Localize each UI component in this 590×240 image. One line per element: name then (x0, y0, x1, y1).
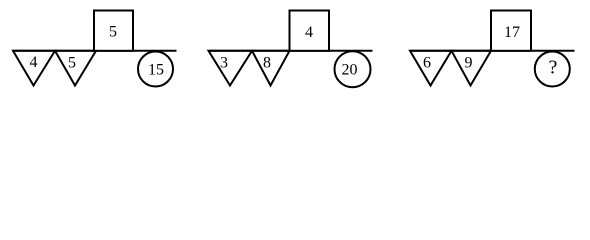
group 2 square (290, 11, 330, 51)
group 2 circle (335, 51, 371, 87)
group 1 baseline (14, 50, 177, 52)
group 1 square (94, 11, 133, 51)
group 1 circle (138, 52, 173, 87)
group 1 triangle A (13, 51, 55, 86)
group 3 circle (535, 52, 570, 87)
svg-text:4: 4 (305, 24, 313, 41)
svg-text:5: 5 (68, 55, 76, 72)
group 1 triangle B (55, 51, 96, 86)
svg-text:9: 9 (465, 55, 473, 72)
group 3 triangle B (452, 51, 492, 86)
group 2 triangle B (252, 51, 290, 86)
svg-text:?: ? (549, 57, 558, 79)
group 2 baseline (209, 50, 373, 52)
svg-text:20: 20 (342, 62, 358, 79)
svg-text:3: 3 (220, 55, 228, 72)
group 3 baseline (411, 50, 575, 52)
group 2 triangle A (209, 51, 253, 86)
svg-text:15: 15 (148, 62, 164, 79)
svg-text:6: 6 (423, 55, 431, 72)
group 3 triangle A (410, 51, 452, 86)
group 3 square (491, 11, 531, 51)
svg-text:8: 8 (263, 55, 271, 72)
svg-text:4: 4 (30, 54, 38, 71)
svg-text:5: 5 (109, 24, 117, 41)
svg-text:17: 17 (504, 24, 520, 41)
